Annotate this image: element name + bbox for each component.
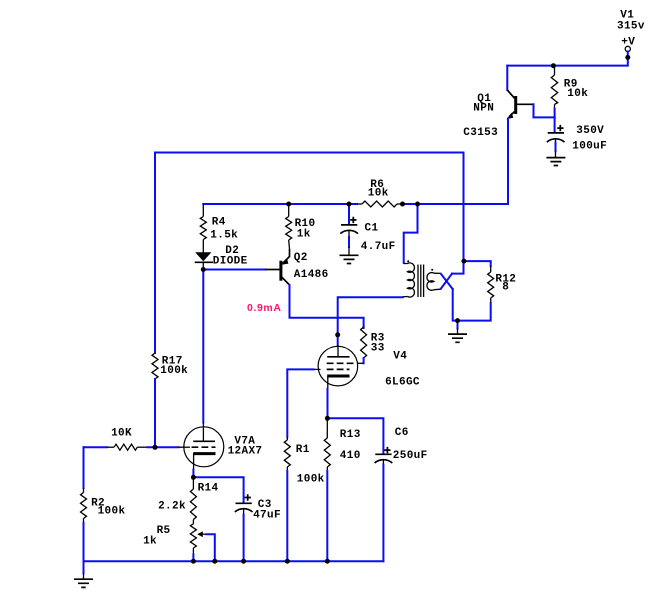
svg-text:DIODE: DIODE [213,256,248,268]
svg-text:33: 33 [371,343,385,355]
capacitor C1 [340,204,358,247]
label R4 1.5k [210,217,238,242]
resistor 10K horizontal [107,444,148,450]
resistor R2 [81,447,87,523]
node +V terminal dot [625,55,630,60]
node rail R13 [325,559,330,564]
ground bottom left [74,561,93,587]
diode D2 [195,252,213,267]
capacitor 350V 100uF [547,117,565,151]
transistor Q2 [266,249,290,285]
wire D2 node down to V7A plate [202,270,204,423]
label Q1 NPN C3153 [463,93,498,139]
resistor R3 [357,327,366,363]
label C1 4.7uF [361,223,396,254]
svg-text:2.2k: 2.2k [158,501,186,513]
wire Q1 base to R9/C node [534,104,555,117]
node R10 top [286,202,291,207]
transformer secondary winding [427,269,441,290]
wire B+ bus [203,203,357,205]
label R10 1k [295,218,316,241]
wire cathode node to C6 [327,418,383,453]
svg-text:V4: V4 [393,351,407,363]
resistor R17 [152,353,158,379]
svg-text:+V: +V [621,37,635,49]
svg-text:47uF: 47uF [253,510,281,522]
transformer core [418,265,424,298]
resistor R10 [286,204,292,249]
svg-text:4.7uF: 4.7uF [361,241,396,253]
transistor Q1 [507,66,534,120]
capacitor C6 [375,447,393,561]
wire V7A cathode down [192,470,194,478]
resistor R4 [200,204,206,253]
wire R9 bottom to base node [554,109,556,118]
label V1 315v [617,10,645,49]
label V7A 12AX7 [228,436,263,458]
label R2 100k [91,498,125,518]
node junction top rail [551,63,556,68]
label R14 2.2k [158,483,218,513]
svg-text:R5: R5 [157,525,171,537]
node V7A cathode junction [191,475,196,480]
label R1 100k [296,444,325,486]
label R6 10k [368,179,389,200]
node V4 plate junction [335,332,340,337]
node rail R1 [285,559,290,564]
ground below secondary [448,321,467,343]
wire bus to primary top jog [404,204,418,263]
resistor R1 [284,437,290,471]
svg-text:Q2: Q2 [294,252,308,264]
svg-text:350V: 350V [576,125,604,137]
node R6 right [400,202,405,207]
node secondary top junction [461,259,466,264]
node transformer feed [415,202,420,207]
wire feedback loop top [155,153,464,354]
node secondary bottom junction [455,318,460,323]
label R3 33 [371,333,385,355]
svg-text:410: 410 [340,450,361,462]
wire 10K to V7A grid [147,446,178,448]
svg-text:C6: C6 [395,427,409,439]
label C3 47uF [253,499,281,522]
svg-text:100uF: 100uF [572,141,607,153]
node D2 cathode junction [201,267,206,272]
svg-text:A1486: A1486 [294,269,329,281]
svg-text:C3153: C3153 [463,127,498,139]
wire R13 bottom to rail [326,471,328,561]
node rail wiper [212,559,217,564]
node +V terminal V1 [625,46,630,51]
wire Q1 emitter down to bus [507,119,509,205]
label R17 100k [160,356,188,378]
label R9 10k [564,79,588,101]
capacitor C3 [235,494,253,561]
wire V4 cathode down [327,389,329,419]
wire Q2 collector to R3 [290,285,364,327]
wire secondary cross X [441,274,453,290]
resistor R9 [551,66,557,109]
label Q2 A1486 [294,252,329,281]
svg-text:1k: 1k [297,229,311,241]
label R5 1k [143,525,170,548]
svg-text:R1: R1 [296,444,310,456]
wire X bottom-right down to ground rail [453,289,491,321]
label 350V 100uF [572,125,607,153]
label C6 250uF [393,427,428,462]
ground below C1 [340,247,359,264]
wire D2 node to Q2 base [203,269,265,271]
wire V4 grid to R1 [287,369,313,437]
node rail R5 bottom [191,559,196,564]
resistor R12 [488,266,494,303]
label R13 410 [340,429,361,462]
potentiometer R5 [190,524,206,555]
wire R5 wiper to rail [207,534,215,561]
svg-text:10k: 10k [567,88,588,100]
transformer T1 primary winding [403,260,415,297]
label R12 8 [495,274,516,294]
wire left grid feed [84,446,107,448]
svg-text:NPN: NPN [473,103,494,115]
svg-text:1k: 1k [143,536,157,548]
svg-text:250uF: 250uF [393,450,428,462]
node C1 top [347,202,352,207]
resistor R6 [357,201,402,207]
svg-text:0.9mA: 0.9mA [247,302,282,314]
tube V4 6L6GC [314,345,358,389]
wire X top-right to feedback node [452,261,464,274]
wire cathode node to C3 [193,477,243,501]
label V4 6L6GC [385,351,420,389]
tube V7A 12AX7 [179,423,224,470]
wire R1 bottom to rail [286,471,288,561]
node rail C3 [241,559,246,564]
wire R2 bottom to rail [83,523,85,561]
svg-text:C1: C1 [365,223,379,235]
svg-text:100k: 100k [98,506,126,518]
ground below 350V cap [546,151,565,165]
wire R17 bottom to grid node [154,379,156,447]
svg-text:100k: 100k [160,365,188,377]
wire primary bottom to V4 plate [338,297,403,345]
node grid junction [153,445,158,450]
svg-text:R13: R13 [340,429,361,441]
svg-text:R14: R14 [198,483,219,495]
wire R5 bottom to rail [192,555,194,562]
resistor R14 [190,477,196,524]
svg-text:100k: 100k [297,474,325,486]
svg-text:6L6GC: 6L6GC [385,377,420,389]
svg-text:10K: 10K [111,428,132,440]
label D2 DIODE [213,245,248,268]
node V4 cathode junction [325,416,330,421]
svg-text:8: 8 [502,282,509,294]
wire node to R12 top [464,261,491,266]
svg-text:1.5k: 1.5k [210,230,238,242]
svg-text:R4: R4 [212,217,226,229]
svg-text:10k: 10k [368,188,389,200]
wire +V rail to Q1 collector [507,52,628,66]
wire bottom ground rail [84,560,384,562]
svg-text:12AX7: 12AX7 [228,446,263,458]
svg-text:315v: 315v [617,21,645,33]
resistor R13 [324,418,330,471]
